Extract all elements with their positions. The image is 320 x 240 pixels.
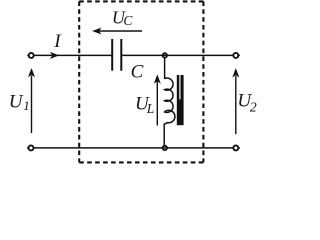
wire inductor branch bottom stub: [163, 124, 165, 146]
svg-text:2: 2: [250, 101, 257, 116]
svg-text:C: C: [131, 62, 144, 83]
svg-text:U: U: [9, 92, 24, 113]
inductor core bar: [177, 75, 184, 125]
wire inductor branch top stub: [164, 58, 166, 79]
inductor L coil: [164, 78, 175, 124]
node bottom junction: [163, 146, 167, 150]
voltage arrow U1: [29, 69, 35, 133]
terminal lower-left: [27, 145, 34, 150]
current arrow I: [51, 53, 59, 59]
capacitor C1 right plate: [120, 39, 122, 71]
svg-text:C: C: [123, 13, 133, 28]
voltage arrow UL: [154, 75, 160, 125]
voltage arrow UC (points left): [93, 28, 142, 34]
svg-text:L: L: [146, 101, 155, 116]
wire bottom: [34, 147, 234, 149]
terminal lower-right: [233, 145, 240, 150]
terminal upper-left: [27, 53, 34, 58]
wire top-left segment: [34, 54, 112, 56]
svg-text:1: 1: [23, 98, 30, 113]
terminal upper-right: [233, 53, 240, 58]
voltage arrow U2: [233, 69, 239, 134]
capacitor C1 left plate: [111, 39, 113, 71]
node top junction: [163, 53, 167, 57]
dashed two-port box: [79, 1, 203, 162]
wire top-right segment: [122, 54, 233, 56]
